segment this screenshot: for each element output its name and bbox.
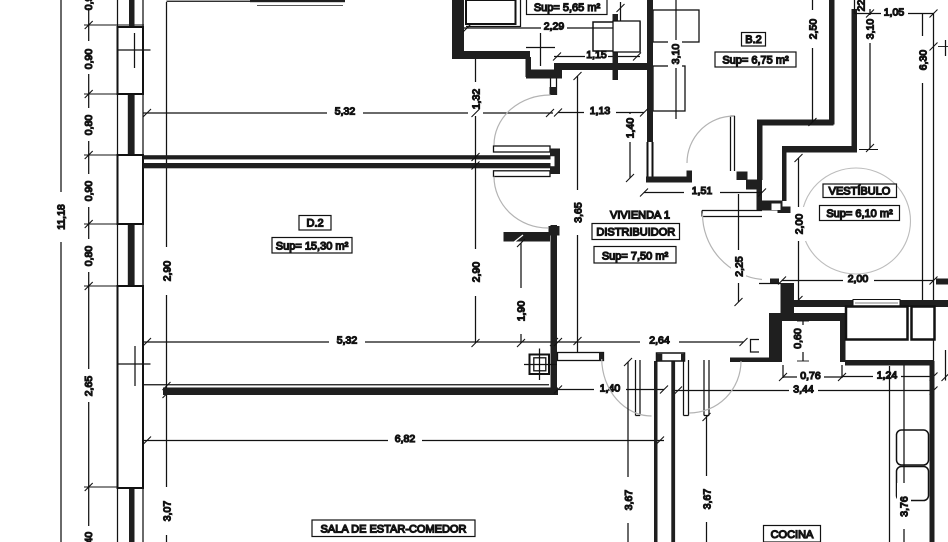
door jamb bracket (D.2 east) <box>550 149 560 175</box>
dimension 2,00 (vertical) <box>791 154 806 304</box>
wall stub between bathroom and B.2 <box>613 14 619 80</box>
pillar with cross <box>524 349 557 381</box>
svg-text:2,50: 2,50 <box>808 19 820 40</box>
svg-text:Sup= 6,10 m²: Sup= 6,10 m² <box>826 208 893 220</box>
svg-text:3,65: 3,65 <box>573 202 585 223</box>
D.2 north wall (double face) <box>144 155 551 159</box>
dimension label 0,90 (clipped top) <box>80 0 96 10</box>
svg-text:1,40: 1,40 <box>83 532 95 542</box>
shelf lines (1,51 opening) <box>702 210 762 212</box>
vestibulo north wall band <box>782 146 857 153</box>
svg-text:0,76: 0,76 <box>800 370 821 382</box>
bathroom south wall left <box>452 51 530 59</box>
svg-text:6,82: 6,82 <box>395 433 416 445</box>
svg-text:0,80: 0,80 <box>83 115 95 136</box>
toilet cross symbol <box>526 47 555 49</box>
svg-text:3,10: 3,10 <box>865 19 877 40</box>
D.2 south wall <box>144 384 550 386</box>
wall bar upper (D.2 east) <box>494 146 551 152</box>
dimension 3,67 (right, vertical) <box>699 413 714 542</box>
door D2 swing arc (lower opening) <box>494 177 548 229</box>
label 2,22 (clipped top) <box>855 0 872 14</box>
fridge/appliance rounded rects <box>897 430 929 465</box>
svg-text:1,13: 1,13 <box>590 105 611 117</box>
stepped wall distribuidor/vestibulo <box>746 180 791 214</box>
svg-text:2,65: 2,65 <box>83 376 95 397</box>
dimension 3,10 (inside B.2) <box>668 0 682 119</box>
dimension 3,76 (vertical) <box>897 366 911 542</box>
top wall fragment above D.2 <box>167 0 251 2</box>
dimension 1,15 <box>553 49 641 61</box>
radiator bar <box>558 353 604 361</box>
label Sup= 5,65 m2 <box>527 0 608 15</box>
door D1 jamb (D.2 east wall top) <box>550 75 552 95</box>
B.2 fixture rects <box>613 21 640 52</box>
dimension 1,51 <box>640 185 766 197</box>
dimension 5,32 (lower) <box>143 335 558 347</box>
label COCINA <box>764 526 821 542</box>
counter (vestibulo nook) <box>846 307 908 340</box>
svg-text:B.2: B.2 <box>745 34 762 46</box>
shower tray <box>466 0 516 24</box>
door swing arcs (sala/cocina) <box>602 359 652 416</box>
svg-text:0,90: 0,90 <box>83 49 95 70</box>
dimension 3,44 <box>674 384 938 396</box>
kitchen wall jamb <box>840 321 846 362</box>
door D2 leaf <box>549 226 560 236</box>
dimension 1,32 / 2,90 (vertical, x=475.5) <box>468 55 483 347</box>
label DISTRIBUIDOR <box>592 224 680 240</box>
B.2 south wall band <box>759 120 834 126</box>
dimension label 1,40 (clipped bottom) <box>80 526 96 542</box>
svg-text:0,90: 0,90 <box>83 0 95 10</box>
svg-text:22: 22 <box>856 0 868 11</box>
wall D.2 east (thick vertical) <box>551 225 558 393</box>
dimension 5,32 (upper) <box>143 106 554 118</box>
svg-text:11,18: 11,18 <box>56 204 68 230</box>
sill cap on cocina west wall <box>657 353 685 361</box>
dimension label 0,80 <box>80 239 96 272</box>
vestibulo south wall <box>783 300 948 307</box>
door B.2 leaf <box>730 116 732 171</box>
dimension 2,00 (horizontal) <box>778 273 938 285</box>
wall bar down (B.2 south) <box>757 120 763 181</box>
label Sup= 7,50 m2 <box>594 247 676 264</box>
window W2 <box>118 155 144 224</box>
cocina inner wall line <box>889 366 891 542</box>
door B.2 swing arc <box>687 116 734 163</box>
cocina east wall <box>930 361 935 542</box>
wall stub in D.2 (T-bar) <box>504 232 551 242</box>
svg-text:5,32: 5,32 <box>335 106 356 118</box>
dimension 1,13 <box>554 105 648 117</box>
svg-text:5,32: 5,32 <box>337 335 358 347</box>
window W1 opening cross <box>117 49 151 51</box>
counter small <box>912 307 935 340</box>
svg-text:3,44: 3,44 <box>793 384 814 396</box>
dimension 0,76 <box>779 365 846 382</box>
label Sup= 6,10 m2 <box>820 206 900 221</box>
right edge stub line <box>945 350 947 381</box>
dimension 2,29 <box>463 21 621 33</box>
dimension 1,40 (vertical) <box>623 113 637 183</box>
window W3 (large) <box>118 286 144 488</box>
toilet tank rect <box>593 22 640 51</box>
dimension 3,67 (left, vertical) <box>621 358 636 542</box>
vestibulo west wall <box>759 283 781 285</box>
label Sup= 6,75 m2 <box>715 52 796 67</box>
wall right of B.2 (shaft) <box>852 9 858 148</box>
door jamb feet (vestibulo entry) <box>770 279 779 285</box>
svg-text:1,40: 1,40 <box>600 383 621 395</box>
window W1 <box>118 27 144 94</box>
left facade wall thick core segments <box>128 0 135 542</box>
tick slashes (left chain) <box>85 21 93 491</box>
dimension label 2,65 <box>80 369 96 402</box>
label Sup= 15,30 m2 <box>272 238 352 254</box>
svg-text:2,00: 2,00 <box>794 214 806 235</box>
dimension 1,90 (vertical) <box>514 239 528 347</box>
svg-text:1,15: 1,15 <box>586 49 607 61</box>
dimension 1,24 <box>842 370 938 382</box>
inner dimension chain line <box>88 0 90 542</box>
window W3 opening cross <box>117 363 151 365</box>
dimension 2,50 (vertical) <box>805 0 820 126</box>
svg-text:3,10: 3,10 <box>670 44 682 65</box>
svg-text:6,30: 6,30 <box>918 50 930 71</box>
svg-text:1,51: 1,51 <box>692 185 713 197</box>
window sill in south wall <box>853 300 900 307</box>
svg-text:1,40: 1,40 <box>625 118 637 139</box>
svg-text:1,32: 1,32 <box>471 89 483 110</box>
double door leaves (sala/cocina) <box>636 360 710 416</box>
dimension extension ticks (left chain) <box>84 25 144 487</box>
cocina west cavity wall faces <box>654 361 658 542</box>
dimension 2,25 (vertical) <box>731 194 746 306</box>
bathroom south wall right <box>554 63 653 70</box>
dimension label 0,80 <box>80 108 96 141</box>
svg-text:1,90: 1,90 <box>516 301 528 322</box>
svg-text:SALA DE ESTAR-COMEDOR: SALA DE ESTAR-COMEDOR <box>321 524 467 536</box>
dimension line 2,90 / 3,07 (vertical, x=166.5) <box>166 2 168 542</box>
door swing arc (1,51 opening) <box>702 214 762 280</box>
svg-text:2,90: 2,90 <box>471 262 483 283</box>
dimension 3,10 (right, vertical) <box>859 9 878 152</box>
svg-text:VESTÍBULO: VESTÍBULO <box>829 185 891 198</box>
dimension label 0,90 <box>80 174 96 207</box>
svg-text:0,80: 0,80 <box>83 246 95 267</box>
B.2 east wall <box>829 0 835 125</box>
dimension 6,82 <box>143 433 664 445</box>
svg-text:Sup= 6,75 m²: Sup= 6,75 m² <box>722 55 789 67</box>
left facade wall outer lines <box>117 0 119 542</box>
dimension 1,05 <box>866 7 938 19</box>
svg-text:2,64: 2,64 <box>649 335 670 347</box>
dimension extension line (2,29 right end) <box>620 2 622 28</box>
dimension 3,65 (vertical) <box>570 72 585 353</box>
label SALA DE ESTAR-COMEDOR <box>312 520 475 537</box>
svg-text:2,90: 2,90 <box>162 261 174 282</box>
svg-text:3,76: 3,76 <box>899 496 911 517</box>
wall bar lower (D.2 east) <box>494 171 551 177</box>
svg-text:1,24: 1,24 <box>877 370 898 382</box>
kitchen dividing wall band <box>845 360 934 366</box>
dimension 2,64 <box>554 335 748 347</box>
svg-text:3,67: 3,67 <box>623 490 635 511</box>
label D.2 <box>299 216 331 231</box>
svg-text:0,60: 0,60 <box>792 328 804 349</box>
svg-text:Sup= 15,30 m²: Sup= 15,30 m² <box>276 241 349 253</box>
dimension 1,40 (horizontal) <box>554 383 668 395</box>
door D1 swing arc <box>494 95 551 145</box>
U-wall end (left of 1,51 opening) <box>647 0 653 142</box>
svg-text:1,05: 1,05 <box>884 7 905 19</box>
svg-text:2,29: 2,29 <box>544 21 565 33</box>
dimension label 0,90 <box>80 41 96 74</box>
svg-text:3,07: 3,07 <box>162 501 174 522</box>
svg-text:COCINA: COCINA <box>771 529 814 541</box>
label VESTIBULO <box>823 184 897 198</box>
bathroom wall step <box>526 57 532 77</box>
svg-text:2,25: 2,25 <box>734 256 746 277</box>
svg-text:3,67: 3,67 <box>702 489 714 510</box>
dimension 0,60 (vertical) <box>792 321 809 361</box>
svg-text:D.2: D.2 <box>306 218 323 230</box>
svg-text:2,00: 2,00 <box>848 273 869 285</box>
outer dimension line 11,18 <box>53 0 69 542</box>
svg-text:VIVIENDA 1: VIVIENDA 1 <box>610 210 670 222</box>
vestibulo turning circle <box>802 168 911 274</box>
kitchen north wall <box>769 313 845 321</box>
svg-text:0,90: 0,90 <box>83 181 95 202</box>
svg-text:Sup= 5,65 m²: Sup= 5,65 m² <box>534 2 601 14</box>
dimension 6,30 (vertical) <box>915 14 930 300</box>
label B.2 <box>742 33 766 47</box>
bathroom west wall <box>452 0 464 58</box>
svg-text:Sup= 7,50 m²: Sup= 7,50 m² <box>602 251 669 263</box>
niche bracket <box>751 340 760 353</box>
right boundary line <box>933 14 935 362</box>
svg-text:DISTRIBUIDOR: DISTRIBUIDOR <box>596 227 675 239</box>
wall bar down (vestibulo north) <box>782 146 787 201</box>
